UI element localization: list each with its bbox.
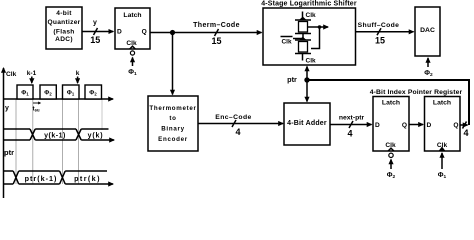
- transistor M2 (bottom pass transistor): [295, 37, 311, 54]
- svg-text:(Flash: (Flash: [53, 29, 74, 36]
- svg-text:ptr: ptr: [287, 75, 297, 84]
- feedback loop wire to M2: [311, 27, 320, 49]
- clock pulse 3 (phi1): [63, 85, 80, 99]
- Thermometer to Binary Encoder box: [148, 96, 198, 151]
- y bus crossover 1: [30, 129, 35, 140]
- svg-text:Φ2: Φ2: [89, 90, 97, 97]
- wire next-ptr: adder to register: [330, 115, 372, 139]
- 4-Stage Logarithmic Shifter box: [263, 8, 356, 65]
- svg-text:Binary: Binary: [161, 126, 184, 133]
- k-1 tick label and arrow: [27, 70, 37, 83]
- transistor M1 gate lead + Clk label: [302, 12, 304, 21]
- phi1 arrow into latch U1: [132, 58, 134, 67]
- latch L1 clock bubble: [389, 153, 393, 157]
- clock pulse 2 (phi2): [40, 85, 56, 99]
- svg-text:Thermometer: Thermometer: [149, 105, 196, 112]
- clock pulse 1 (phi1): [17, 85, 33, 99]
- svg-text:15: 15: [375, 36, 385, 46]
- node A junction dot on Q output: [170, 30, 175, 35]
- svg-text:Φ1: Φ1: [438, 172, 447, 180]
- transistor M1 (top pass transistor): [295, 17, 311, 34]
- svg-text:y: y: [5, 105, 9, 112]
- svg-text:D: D: [427, 122, 432, 129]
- svg-text:4-bit: 4-bit: [56, 10, 72, 17]
- clock pulse 4 (phi2): [85, 85, 102, 99]
- svg-text:next-ptr: next-ptr: [339, 115, 365, 122]
- svg-text:Φ2: Φ2: [44, 90, 52, 97]
- latch U1 clock bubble: [130, 51, 134, 55]
- svg-text:Clk: Clk: [306, 12, 317, 19]
- ptr node junction dot: [304, 77, 309, 82]
- svg-text:k-1: k-1: [27, 70, 37, 77]
- svg-text:ptr(k): ptr(k): [74, 174, 101, 183]
- svg-text:to: to: [169, 115, 176, 122]
- svg-text:4-Bit Index Pointer Register: 4-Bit Index Pointer Register: [370, 89, 463, 96]
- latch L1 (register, phi2) box: [373, 97, 409, 152]
- 4-bit Quantizer (Flash ADC) box: [46, 7, 82, 49]
- k tick label and arrow: [76, 70, 80, 83]
- svg-text:Φ1: Φ1: [21, 90, 29, 97]
- svg-text:Clk: Clk: [126, 40, 137, 47]
- wire: L1 Q to L2 D: [409, 124, 423, 126]
- svg-text:15: 15: [90, 35, 100, 45]
- ptr bus crossover 2: [60, 171, 66, 184]
- svg-text:Encoder: Encoder: [158, 136, 188, 143]
- svg-text:Therm–Code: Therm–Code: [193, 22, 240, 29]
- ptr bus crossover 1: [13, 171, 19, 184]
- ptr arrow down into adder: [306, 80, 308, 102]
- svg-text:tsu: tsu: [33, 106, 40, 113]
- svg-text:15: 15: [211, 36, 221, 46]
- svg-text:4: 4: [463, 128, 468, 138]
- svg-text:4: 4: [347, 129, 352, 139]
- ptr feedback vertical wire: [468, 79, 470, 125]
- wire down from node A to encoder: [172, 33, 174, 95]
- svg-text:Φ1: Φ1: [67, 90, 75, 97]
- guide line at pulse3 fall: [78, 99, 80, 184]
- ptr bus top rail: [4, 170, 108, 172]
- tap wire right with arrow: [308, 26, 329, 28]
- svg-text:Latch: Latch: [123, 12, 141, 19]
- ptr bus bottom rail with arrow: [4, 183, 114, 185]
- phi2 arrow into latch L1: [390, 160, 392, 170]
- svg-text:4-Stage Logarithmic Shifter: 4-Stage Logarithmic Shifter: [261, 1, 357, 8]
- guide line at pulse1 fall: [32, 99, 34, 184]
- svg-text:D: D: [375, 122, 380, 129]
- svg-text:Q: Q: [453, 122, 458, 129]
- svg-text:4-Bit Adder: 4-Bit Adder: [287, 120, 327, 127]
- svg-text:Enc–Code: Enc–Code: [215, 114, 251, 121]
- latch U1 clock notch: [130, 46, 136, 49]
- clock baseline with right arrow: [4, 98, 114, 100]
- tap junction dot: [318, 25, 322, 29]
- guide line at pulse1 rise: [15, 99, 17, 184]
- svg-text:Φ2: Φ2: [387, 172, 396, 180]
- svg-text:k: k: [76, 70, 80, 77]
- phi2 arrow into DAC: [427, 58, 429, 67]
- svg-text:Q: Q: [402, 122, 407, 129]
- Clk-bar label and wire: [281, 37, 304, 46]
- svg-text:Clk: Clk: [6, 71, 17, 78]
- guide line at pulse3 rise: [61, 99, 63, 184]
- phi1 arrow into latch L2: [441, 153, 443, 169]
- svg-text:Shuff–Code: Shuff–Code: [358, 22, 400, 29]
- wire Therm-Code: latch Q to shifter: [150, 22, 262, 46]
- svg-text:Q: Q: [142, 29, 147, 36]
- wire y: quantizer to latch, bus slash, labels y and 15: [82, 20, 113, 46]
- t_su annotation: [33, 102, 42, 113]
- latch L2 clock notch (solid): [439, 147, 446, 152]
- svg-text:Φ2: Φ2: [424, 70, 433, 78]
- svg-text:Clk: Clk: [306, 58, 317, 65]
- connector between M1 and M2: [302, 34, 304, 41]
- svg-text:y(k): y(k): [88, 133, 104, 140]
- ptr feedback horizontal wire: [307, 79, 469, 81]
- latch L2 (register, phi1) box: [425, 97, 461, 152]
- svg-text:y: y: [93, 20, 97, 27]
- svg-text:Latch: Latch: [382, 100, 400, 107]
- svg-text:ADC): ADC): [55, 36, 73, 43]
- y bus crossover 2: [76, 129, 81, 140]
- svg-text:ptr: ptr: [4, 148, 14, 157]
- DAC box: [415, 7, 440, 56]
- svg-text:y(k-1): y(k-1): [44, 133, 66, 140]
- wire: L2 Q to feedback line, slash and 4: [460, 122, 469, 139]
- latch U1 (input latch) box: [115, 8, 150, 49]
- transistor M2 gate lead + Clk label: [302, 54, 304, 61]
- svg-text:Latch: Latch: [433, 100, 451, 107]
- y bus bottom rail with arrow: [4, 139, 115, 141]
- 4-Bit Adder box: [284, 103, 330, 145]
- svg-text:4: 4: [235, 127, 240, 137]
- guide line at pulse4 fall: [101, 99, 103, 130]
- svg-text:Φ1: Φ1: [128, 69, 137, 77]
- svg-text:D: D: [117, 29, 122, 36]
- y bus top rail: [4, 128, 109, 130]
- svg-text:Clk: Clk: [281, 39, 292, 46]
- wire Enc-Code: encoder to adder: [198, 114, 283, 137]
- wire Shuff-Code: shifter to DAC: [356, 22, 414, 46]
- svg-text:Quantizer: Quantizer: [47, 19, 80, 26]
- ptr arrow up into shifter: [306, 67, 308, 81]
- time axis vertical with up arrow: [3, 68, 5, 198]
- svg-text:ptr(k-1): ptr(k-1): [25, 174, 58, 183]
- svg-text:DAC: DAC: [420, 27, 435, 34]
- latch L1 clock notch: [388, 148, 394, 151]
